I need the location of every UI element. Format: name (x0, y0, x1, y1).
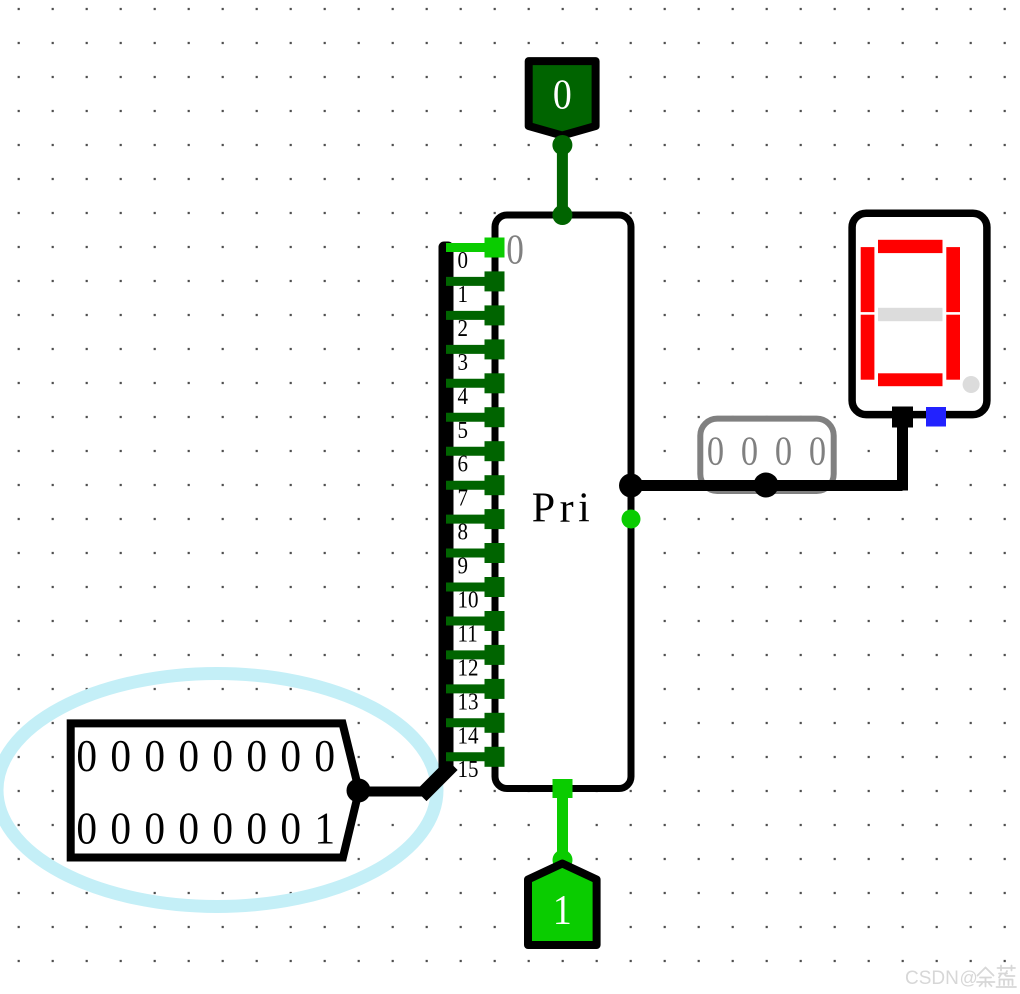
svg-text:7: 7 (458, 484, 468, 511)
svg-text:0: 0 (76, 804, 97, 854)
svg-text:11: 11 (458, 620, 478, 647)
svg-text:14: 14 (458, 722, 479, 749)
svg-text:0: 0 (246, 731, 267, 781)
svg-text:0: 0 (458, 247, 468, 274)
svg-text:0: 0 (110, 731, 131, 781)
svg-text:@: @ (960, 968, 978, 988)
svg-text:8: 8 (458, 518, 468, 545)
svg-text:1: 1 (314, 804, 335, 854)
svg-text:6: 6 (458, 450, 468, 477)
svg-text:5: 5 (458, 417, 468, 444)
svg-text:4: 4 (458, 383, 468, 410)
svg-text:Pri: Pri (532, 486, 595, 532)
svg-text:1: 1 (458, 281, 468, 308)
svg-text:0: 0 (212, 804, 233, 854)
svg-text:1: 1 (553, 886, 572, 933)
svg-text:0: 0 (246, 804, 267, 854)
svg-text:0: 0 (212, 731, 233, 781)
svg-text:0: 0 (280, 731, 301, 781)
svg-text:0: 0 (280, 804, 301, 854)
svg-text:9: 9 (458, 552, 468, 579)
svg-text:12: 12 (458, 654, 479, 681)
svg-text:2: 2 (458, 315, 468, 342)
svg-text:0: 0 (178, 731, 199, 781)
svg-text:15: 15 (458, 756, 479, 783)
svg-text:CSDN: CSDN (905, 968, 959, 989)
svg-text:0: 0 (809, 429, 826, 475)
svg-text:0: 0 (144, 731, 165, 781)
svg-text:0: 0 (76, 731, 97, 781)
svg-text:10: 10 (458, 586, 479, 613)
svg-text:0: 0 (553, 71, 572, 118)
svg-text:0: 0 (110, 804, 131, 854)
svg-text:13: 13 (458, 688, 479, 715)
svg-text:0: 0 (775, 429, 792, 475)
svg-text:0: 0 (178, 804, 199, 854)
svg-text:0: 0 (144, 804, 165, 854)
svg-text:0: 0 (707, 429, 724, 475)
svg-text:0: 0 (314, 731, 335, 781)
svg-text:3: 3 (458, 349, 468, 376)
svg-text:0: 0 (741, 429, 758, 475)
svg-text:0: 0 (506, 227, 524, 274)
